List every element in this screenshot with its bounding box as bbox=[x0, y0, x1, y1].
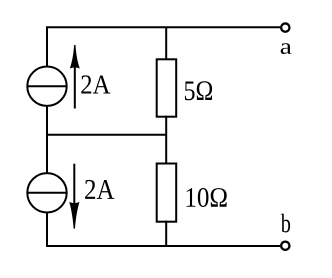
wire bottom rail bbox=[47, 212, 280, 246]
label 2A (source I1) bbox=[81, 75, 110, 93]
terminal b bbox=[281, 242, 289, 250]
wire top rail bbox=[47, 27, 280, 66]
wire resistor branch bottom stub bbox=[165, 221, 167, 246]
label 10Ω bbox=[187, 188, 227, 207]
node b label bbox=[281, 214, 290, 233]
wire between resistors bbox=[165, 116, 167, 165]
current source I2 (2A down) bbox=[27, 173, 66, 212]
wire left middle segment bbox=[46, 106, 48, 173]
current source I1 (2A up) bbox=[27, 67, 66, 106]
label 5Ω bbox=[185, 81, 212, 100]
wire resistor branch top stub bbox=[165, 27, 167, 60]
arrow I1 direction (up) bbox=[70, 45, 80, 109]
terminal a bbox=[281, 23, 289, 31]
resistor R2 body bbox=[157, 164, 177, 222]
label 2A (source I2) bbox=[85, 180, 114, 199]
node a label bbox=[281, 43, 292, 54]
wire middle rail bbox=[46, 134, 166, 136]
resistor R1 body bbox=[157, 59, 177, 116]
arrow I2 direction (down) bbox=[69, 164, 79, 229]
